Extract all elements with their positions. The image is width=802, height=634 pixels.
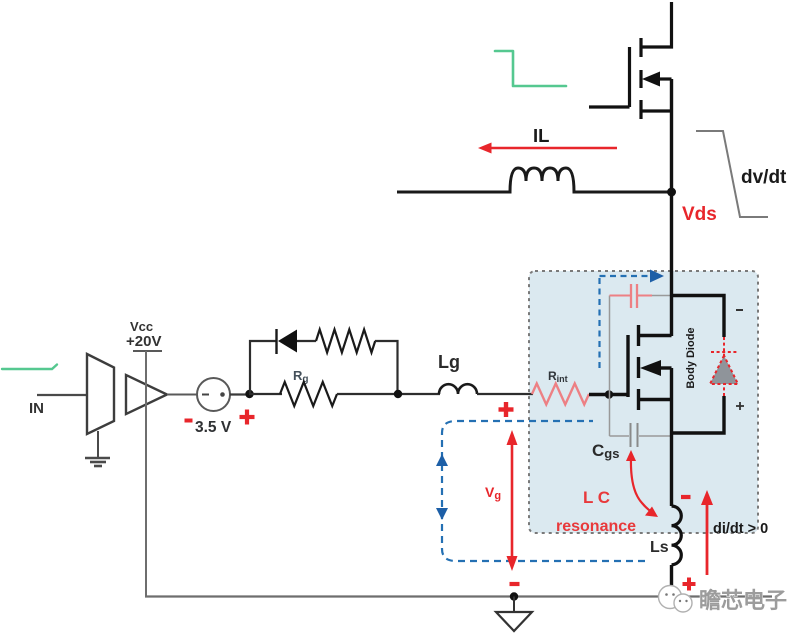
red minus (Ls top) [681,495,691,499]
driver buffer U2 (triangle) [126,375,167,414]
drain lead Q1 [641,2,672,47]
node A (driver output node) [245,390,253,398]
dv/dt waveform [696,131,768,217]
channel Q1 [639,38,642,57]
gate bar Q1 [628,47,631,107]
gate node dot [605,390,614,399]
ground (signal) [85,458,110,466]
body diode DB (red dashed) [710,337,738,397]
svg-text:L C: L C [583,488,610,507]
loop arrow up [436,454,448,466]
source vertical Q2 to Ls [670,368,673,506]
gate bar Q2 [626,335,629,397]
MOSFET Q2 (DUT, low-side) [628,325,672,410]
inductor Lg [439,384,477,394]
source lead Q2 [639,398,672,401]
svg-text:dv/dt: dv/dt [741,167,787,188]
svg-text:+20V: +20V [126,333,161,350]
svg-text:Vg: Vg [485,484,501,502]
gate lead Q1 [589,105,630,108]
inductor Ls (source parasitic) [672,506,682,565]
resistor Rint (internal gate resistance) [532,384,589,405]
wire driver output [167,394,197,396]
watermark logo [659,586,693,613]
red plus (source right) [240,410,255,425]
diode D1 (anti-parallel, pointing left) [277,329,298,354]
node B (gate branch join) [394,390,402,398]
svg-text:IN: IN [29,400,44,417]
svg-text:3.5 V: 3.5 V [195,419,232,436]
red plus (source, bottom right) [683,578,696,591]
svg-text:resonance: resonance [556,518,636,535]
ground stem [513,597,515,612]
source lead Q1 [641,109,672,112]
ground stem of U1 [97,431,99,457]
wire node A to Rg [249,393,282,395]
wire riser to diode branch [250,341,276,394]
svg-text:Body Diode: Body Diode [685,327,697,388]
svg-text:IL: IL [533,125,549,146]
svg-text:瞻芯电子: 瞻芯电子 [699,588,787,613]
Vcc vertical / return wire [145,351,147,596]
ground node dot [510,592,518,600]
blue arrow head [650,270,664,283]
svg-text:Lg: Lg [438,352,460,372]
svg-text:Vcc: Vcc [130,319,153,334]
wire IN input [37,394,88,396]
thick gate lead to Q2 [589,393,629,396]
di/dt arrow (red, up) [701,490,713,575]
svg-text:di/dt > 0: di/dt > 0 [713,521,768,537]
drain lead Q2 [639,334,672,337]
body connection Q2 [659,366,672,369]
body diode minus mark [736,309,743,311]
loop arrow down [436,508,448,520]
parasitic region highlight box [529,271,758,533]
gray link Cgd-Cgs [609,296,611,437]
wire Ls to ground rail [670,565,673,597]
wire resistor to right corner [375,341,398,394]
load inductor L1 [397,168,671,192]
main vertical (Q1 source to Q2 drain, Vds node) [670,79,673,336]
capacitor Cgs [610,423,672,447]
power ground (triangle) [496,612,532,631]
wire source to node A [230,393,250,395]
node Vds dot [667,188,676,197]
body diode branch wiring [672,296,725,338]
red minus (source left) [185,419,193,423]
Vg arrow (red, double-headed) [507,430,518,571]
wire diode to resistor [297,340,316,342]
level shifter U1 (trapezoid) [87,354,114,434]
body arrow Q2 [640,360,661,376]
resistor Rg [280,382,337,406]
IL current arrow [478,143,617,154]
Vcc supply bar [133,350,162,352]
svg-text:Ls: Ls [650,539,669,556]
green gate step waveform (top) [495,51,566,86]
resistor R1 (series with D1) [316,330,375,353]
capacitor Cgd (pink) [610,284,672,308]
resonance curved arrow [626,450,658,517]
body connection Q1 [658,77,672,80]
red minus (below Vg) [510,582,520,586]
svg-text:Rg: Rg [293,368,309,385]
channel Q2 [637,325,640,346]
svg-text:Vds: Vds [682,204,717,225]
blue dashed path to drain [598,276,600,368]
ground rail [145,595,772,597]
voltage source V1 (-3.5V offset) [197,378,230,411]
red plus (gate, above Vg) [499,402,514,417]
wire Rg to Lg [337,393,440,395]
body diode plus mark [736,402,744,410]
body arrow Q1 [642,72,660,87]
wire Lg into box [477,393,533,395]
green input step waveform (left) [2,365,57,370]
blue dashed gate loop [442,421,645,561]
MOSFET Q1 (high-side) [589,2,672,119]
